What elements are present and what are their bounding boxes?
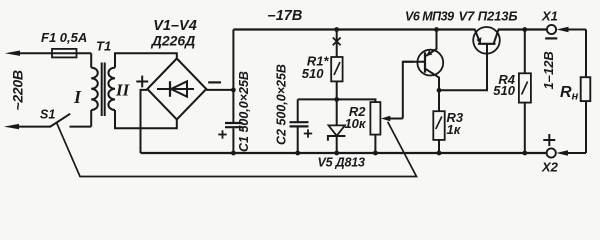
- V7 base bar: [478, 43, 496, 45]
- V6 emitter with arrow: [436, 30, 438, 49]
- node top rail to R1 branch: [334, 27, 339, 32]
- node: reference node (R1/V5/R2/C2): [334, 97, 339, 102]
- wire reference node to R2 top: [337, 99, 376, 102]
- svg-text:Д226Д: Д226Д: [151, 32, 196, 48]
- V7 collector: [494, 30, 499, 44]
- zener diode V5 D813: [336, 99, 338, 125]
- svg-text:Х2: Х2: [541, 159, 559, 174]
- plus sign of C2: [304, 133, 312, 135]
- svg-text:I: I: [73, 87, 82, 107]
- switch S1: [50, 114, 69, 126]
- node R3 to bottom rail: [437, 151, 442, 156]
- plus sign at bridge + output: [136, 81, 148, 83]
- svg-text:T1: T1: [96, 39, 111, 54]
- arrow into X1 from load: [557, 27, 569, 32]
- arrow into X2 from load: [556, 150, 568, 155]
- node C1 to bottom rail: [231, 151, 236, 156]
- node R4 to bottom rail: [522, 151, 527, 156]
- wire bottom rail (common plus): [141, 152, 547, 154]
- node R4 top to output rail: [522, 27, 527, 32]
- svg-text:10к: 10к: [344, 116, 366, 131]
- svg-text:С2 500,0×25В: С2 500,0×25В: [275, 64, 289, 145]
- X mark on R1 lead: [333, 38, 341, 46]
- svg-text:F1 0,5А: F1 0,5А: [41, 30, 87, 45]
- wire R3 bottom to rail: [438, 140, 440, 153]
- bridge rectifier V1-V4 diamond: [147, 59, 206, 120]
- node R2 to bottom rail: [373, 151, 378, 156]
- wire R1 bottom to node: [336, 81, 338, 99]
- mechanical link line between S1 and R2: [57, 122, 417, 177]
- resistor R1* 510: [331, 57, 342, 81]
- input terminal arrow (top, ~220V): [5, 51, 20, 56]
- node C2 to bottom rail: [295, 151, 300, 156]
- V7 emitter with arrow: [475, 30, 480, 44]
- wire: [70, 126, 92, 128]
- capacitor C2 500,0x25V: [297, 99, 299, 121]
- wire secondary top lead to bridge: [115, 53, 177, 67]
- svg-text:С1 500,0×25В: С1 500,0×25В: [237, 71, 251, 152]
- transformer T1 primary winding I: [91, 68, 98, 110]
- terminal X2: [547, 148, 556, 157]
- plus sign at X2: [543, 139, 555, 141]
- wire top rail (output segment to X1): [498, 28, 547, 30]
- wire R4 bottom to rail: [524, 103, 526, 153]
- transistor V6 MP39 circle: [417, 50, 443, 76]
- minus sign at X1: [545, 37, 557, 39]
- node: - output joins C1 branch: [231, 88, 236, 93]
- V6 collector: [425, 69, 439, 91]
- wire: [17, 126, 50, 128]
- wire C2 top to reference node: [298, 98, 337, 100]
- resistor R3 1k: [438, 90, 440, 111]
- svg-text:–17В: –17В: [268, 8, 303, 24]
- svg-text:510: 510: [302, 66, 324, 81]
- svg-text:S1: S1: [40, 108, 55, 122]
- svg-text:510: 510: [493, 83, 515, 98]
- wire R2 bottom to rail: [374, 135, 376, 153]
- wire bridge + corner down to bottom rail: [141, 90, 148, 153]
- V7 base lead down to V6 collector node: [439, 44, 487, 91]
- svg-text:Rн: Rн: [560, 84, 579, 103]
- minus sign at bridge - output: [208, 81, 221, 83]
- node V5 to bottom rail: [334, 151, 339, 156]
- load resistor Rn: [585, 30, 587, 78]
- wire bridge - corner to C1 node: [206, 89, 233, 91]
- svg-text:1к: 1к: [447, 122, 462, 137]
- svg-text:~220В: ~220В: [10, 70, 26, 110]
- node V6 emitter to top rail: [434, 27, 439, 32]
- V6 base lead: [403, 61, 425, 63]
- potentiometer R2 10k: [370, 102, 380, 135]
- wire secondary bottom lead to bridge: [115, 110, 177, 128]
- wire primary top lead: [90, 53, 92, 67]
- transformer core: [101, 63, 103, 117]
- wiper arrow of R2: [386, 118, 403, 120]
- fuse F1 0,5A: [52, 52, 91, 54]
- wire top rail (input segment, -17V): [233, 28, 474, 30]
- wire: [336, 30, 338, 58]
- V6 base bar: [424, 52, 426, 72]
- svg-text:Х1: Х1: [541, 9, 558, 24]
- svg-text:V5 Д813: V5 Д813: [318, 156, 365, 170]
- wire R2 wiper up to V6 base: [403, 62, 414, 119]
- capacitor C1 500,0x25V: [232, 30, 234, 123]
- svg-text:II: II: [115, 81, 131, 100]
- terminal X1: [547, 25, 556, 34]
- svg-text:V7 П213Б: V7 П213Б: [459, 8, 518, 23]
- node V6 collector / R3 / V7 base: [437, 88, 442, 93]
- transformer T1 secondary winding II: [108, 68, 115, 110]
- svg-text:V6 МП39: V6 МП39: [405, 9, 454, 23]
- svg-text:1–12В: 1–12В: [541, 51, 556, 89]
- plus sign of C1: [218, 134, 226, 136]
- transistor V7 P213B circle: [473, 27, 500, 54]
- input terminal arrow (bottom, ~220V): [4, 124, 19, 129]
- wire primary bottom lead: [90, 110, 92, 127]
- resistor R4 510: [524, 30, 526, 74]
- diode inside bridge: [157, 88, 194, 90]
